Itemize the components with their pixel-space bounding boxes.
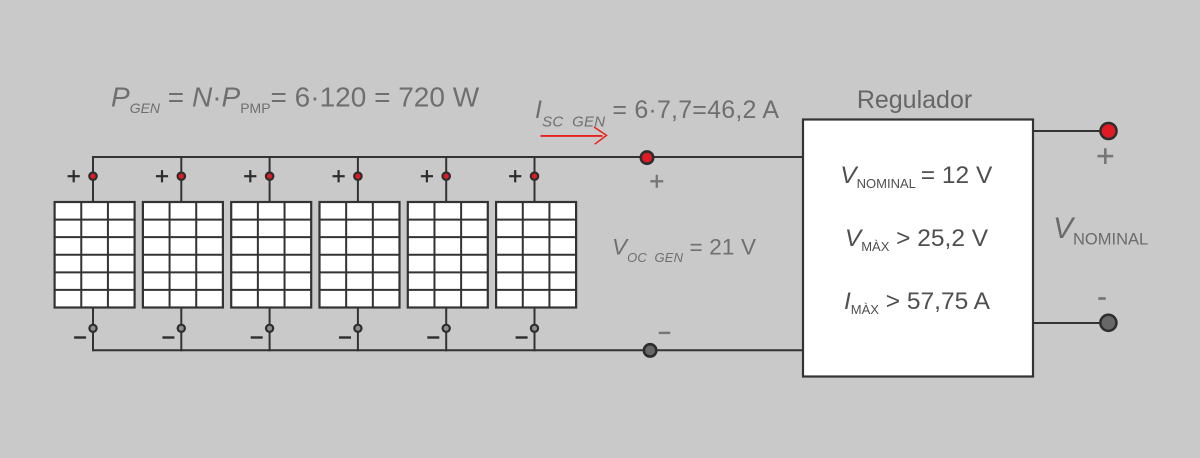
- wire: regulator negative output: [1032, 322, 1108, 324]
- label: PV4 minus sign: [339, 336, 351, 338]
- wire: panel PV2 negative lead: [180, 307, 182, 352]
- wire: panel PV1 positive lead: [92, 156, 94, 203]
- label: PV4 plus sign: [333, 170, 345, 182]
- solar panel PV6: [496, 202, 576, 308]
- wire: bottom negative bus: [93, 349, 805, 351]
- wire: panel PV5 negative lead: [445, 307, 447, 352]
- label: PV5 plus sign: [421, 170, 433, 182]
- label: minus at negative output: [1098, 297, 1106, 300]
- label: PV6 minus sign: [516, 336, 528, 338]
- solar panel PV5: [408, 202, 488, 308]
- node: PV5 negative terminal: [443, 325, 450, 332]
- svg-text:VOC GEN = 21 V: VOC GEN = 21 V: [612, 235, 756, 266]
- solar panel PV4: [320, 202, 400, 308]
- wire: panel PV4 negative lead: [357, 307, 359, 352]
- svg-text:VNOMINAL: VNOMINAL: [1053, 212, 1148, 249]
- node: PV6 positive terminal: [531, 173, 538, 180]
- label: PV1 minus sign: [74, 336, 86, 338]
- label: + at generator positive junction: [650, 175, 663, 188]
- label: PV1 plus sign: [68, 170, 80, 182]
- wire: regulator positive output: [1032, 130, 1109, 132]
- label: minus at generator negative junction: [659, 332, 671, 334]
- label: PV2 plus sign: [156, 170, 168, 182]
- node: PV1 positive terminal: [89, 173, 96, 180]
- wire: panel PV4 positive lead: [357, 156, 359, 203]
- wire: panel PV5 positive lead: [445, 156, 447, 203]
- wire: panel PV6 positive lead: [534, 156, 536, 203]
- node: PV2 negative terminal: [178, 325, 185, 332]
- label: PV6 plus sign: [509, 170, 521, 182]
- solar panel PV3: [231, 202, 311, 308]
- node: PV3 negative terminal: [266, 325, 273, 332]
- wire: top positive bus: [93, 156, 805, 158]
- node: PV3 positive terminal: [266, 173, 273, 180]
- node: PV4 positive terminal: [354, 173, 361, 180]
- label: PV2 minus sign: [162, 336, 174, 338]
- node: generator positive output junction: [641, 151, 653, 163]
- node: PV5 positive terminal: [443, 173, 450, 180]
- node: PV4 negative terminal: [354, 325, 361, 332]
- node: PV2 positive terminal: [178, 173, 185, 180]
- wire: panel PV2 positive lead: [180, 156, 182, 203]
- solar panel PV1: [55, 202, 135, 308]
- solar panel PV2: [143, 202, 223, 308]
- wire: panel PV3 negative lead: [269, 307, 271, 352]
- terminal: positive output: [1100, 123, 1116, 139]
- label: PV3 plus sign: [244, 170, 256, 182]
- svg-text:Regulador: Regulador: [857, 86, 972, 114]
- regulator box U1: [803, 120, 1033, 377]
- label: PV5 minus sign: [427, 336, 439, 338]
- label: PV3 minus sign: [251, 336, 263, 338]
- current flow arrow for I SC GEN: [541, 127, 607, 144]
- node: PV6 negative terminal: [531, 325, 538, 332]
- svg-text:ISC GEN = 6·7,7=46,2 A: ISC GEN = 6·7,7=46,2 A: [535, 96, 779, 131]
- label: + at positive output: [1097, 148, 1113, 164]
- wire: panel PV6 negative lead: [534, 307, 536, 352]
- node: generator negative output junction: [644, 344, 656, 356]
- node: PV1 negative terminal: [89, 325, 96, 332]
- svg-text:PGEN = N·PPMP= 6·120 = 720 W: PGEN = N·PPMP= 6·120 = 720 W: [111, 82, 480, 117]
- wire: panel PV3 positive lead: [269, 156, 271, 203]
- terminal: negative output: [1100, 315, 1116, 331]
- wire: panel PV1 negative lead: [92, 307, 94, 352]
